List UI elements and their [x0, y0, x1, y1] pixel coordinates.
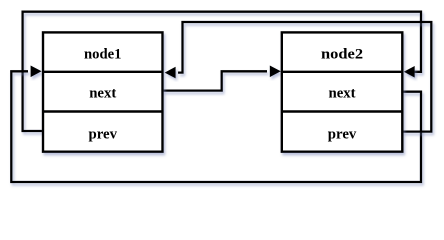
wire E4: node2:next -> node1 (routed under the bottom) — [11, 71, 421, 182]
node node2 (record box) — [282, 32, 403, 151]
arrowhead E2 into node1 right — [165, 67, 176, 79]
svg-text:node1: node1 — [84, 47, 122, 63]
node node1 (record box) — [43, 32, 163, 151]
arrowhead E1 into node2 left — [270, 66, 281, 78]
wire E1: node1:next -> node2 (middle zigzag) — [163, 71, 268, 90]
node1 next cell label — [89, 86, 116, 102]
node2 next cell label — [328, 86, 355, 102]
svg-text:next: next — [328, 86, 355, 102]
node1 prev cell label — [89, 126, 118, 142]
arrowhead E3 into node2 right — [404, 66, 415, 78]
node2 prev cell label — [328, 126, 357, 142]
svg-text:prev: prev — [328, 126, 357, 142]
svg-text:prev: prev — [89, 126, 118, 142]
svg-text:node2: node2 — [321, 47, 363, 63]
svg-text:next: next — [89, 86, 116, 102]
node2 title label — [321, 47, 363, 63]
arrowhead E4 into node1 left — [31, 66, 42, 78]
node1 title label — [84, 47, 122, 63]
wire E2: node2:prev -> node1 (routed across upper middle) — [178, 22, 431, 132]
wire E3: node1:prev -> node2 (routed over the top) — [23, 12, 421, 131]
